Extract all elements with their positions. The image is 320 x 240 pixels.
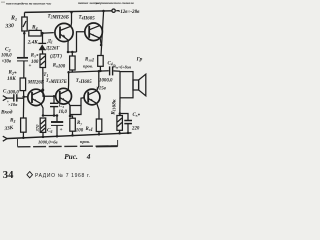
input terminal bottom: [3, 136, 7, 141]
top faint cropped text row: [1, 1, 134, 6]
capacitor C6 electrolytic: [56, 116, 58, 122]
resistor R4: [29, 30, 41, 36]
junction dots: [22, 10, 129, 139]
speaker bottom wire: [119, 98, 121, 116]
right bus from rail: [101, 11, 104, 56]
diode D1: [38, 42, 46, 44]
transistor T2: [55, 23, 73, 41]
svg-text:Гр: Гр: [136, 57, 143, 63]
transistor T1: [28, 89, 44, 105]
svg-text:(Д7Г): (Д7Г): [50, 55, 62, 60]
svg-text:Вход: Вход: [0, 109, 13, 116]
resistor (T1 emitter, 370): [40, 118, 46, 132]
wire node to diode: [42, 33, 44, 43]
resistor R1: [22, 17, 27, 31]
transistor T4: [85, 23, 103, 41]
supply terminal: [112, 9, 115, 12]
resistor R3: [21, 118, 27, 132]
T3 emitter down: [68, 103, 70, 116]
C5 branch wire: [120, 114, 128, 121]
svg-text:-12в÷-28в: -12в÷-28в: [119, 9, 141, 15]
wire R2 to input node: [23, 91, 25, 99]
capacitor C1: [13, 94, 15, 101]
resistor R5: [40, 54, 46, 68]
T2 emitter wire down: [67, 40, 69, 52]
resistor R9: [96, 119, 102, 132]
input terminal top: [3, 96, 7, 101]
resistor R2: [20, 78, 26, 91]
T3 collector to output bus: [67, 72, 69, 90]
capacitor C5: [124, 120, 132, 122]
top supply rail: [25, 11, 113, 13]
svg-text:R1: R1: [10, 16, 17, 22]
resistor R7: [70, 118, 76, 131]
svg-text:2,4К: 2,4К: [27, 40, 38, 46]
resistor R6 (100): [70, 56, 76, 70]
svg-text:Д226Г: Д226Г: [45, 47, 60, 52]
svg-text:пров.: пров.: [80, 139, 90, 144]
svg-text:18К: 18К: [7, 76, 16, 82]
T1 collector wire: [41, 89, 43, 91]
dashed crop line: [18, 145, 119, 148]
transistor T3: [56, 88, 72, 104]
R6 bottom to output bus: [71, 70, 73, 72]
T1 emitter wire down: [41, 104, 43, 116]
wire R5 to T1 collector node: [42, 68, 44, 89]
svg-text:Т1: Т1: [43, 73, 48, 78]
left bus wire: [24, 12, 26, 17]
svg-text:R7: R7: [77, 121, 82, 126]
transistor T5: [84, 89, 100, 105]
svg-text:пров.: пров.: [83, 64, 93, 69]
wire T1 node to T3 base: [43, 89, 56, 97]
svg-text:1000,0×6в: 1000,0×6в: [38, 139, 58, 144]
resistor R8 box between T3 emitter and T5 base: [70, 106, 81, 115]
svg-text:Д1: Д1: [47, 40, 53, 45]
resistor R11: [117, 116, 123, 131]
wire R4 to T2 base: [41, 32, 54, 35]
T2 collector to rail: [70, 12, 73, 27]
svg-text:РАДИО № 7 1968 г.: РАДИО № 7 1968 г.: [35, 173, 91, 179]
svg-text:Рис.: Рис.: [64, 152, 78, 161]
svg-text:34: 34: [3, 170, 14, 181]
T1 base wire: [24, 96, 28, 98]
resistor R10: [98, 56, 104, 67]
T5 emitter to R9: [97, 103, 99, 119]
svg-text:×30в: ×30в: [2, 60, 12, 65]
svg-text:4: 4: [86, 152, 91, 161]
svg-text:10,0: 10,0: [59, 110, 68, 115]
svg-text:100: 100: [31, 60, 39, 65]
svg-text:МП26Б: МП26Б: [27, 81, 44, 86]
svg-text:+: +: [29, 64, 32, 69]
wire R1 to R4 node: [23, 31, 25, 58]
svg-text:×10в: ×10в: [8, 102, 17, 107]
svg-text:нием передачи на высоких час: нием передачи на высоких час: [6, 2, 52, 6]
wire T2 emitter to T4 base corner: [68, 51, 77, 53]
svg-text:1000,0: 1000,0: [99, 79, 113, 84]
svg-text:100: 100: [76, 128, 84, 133]
capacitor C4: [109, 66, 111, 75]
svg-text:+: +: [60, 127, 63, 133]
svg-text:370: 370: [35, 124, 40, 133]
svg-text:у принимаемого сигнала: у принимаемого сигнала: [95, 1, 134, 5]
svg-text:220: 220: [131, 127, 140, 132]
svg-text:С3: С3: [59, 104, 64, 109]
capacitor C2: [17, 57, 28, 59]
bottom rail: [6, 133, 132, 139]
svg-text:100,0: 100,0: [1, 54, 12, 59]
footer diamond: [27, 172, 33, 178]
output bus: [69, 71, 109, 73]
T4 base wire: [77, 32, 85, 52]
capacitor C3: [53, 96, 55, 103]
T4 emitter to right bus: [99, 38, 102, 45]
figure crop mark left bracket: [17, 139, 19, 147]
figure crop mark right bracket: [117, 140, 119, 146]
wire C2 to R2: [23, 61, 25, 78]
svg-text:330: 330: [4, 23, 14, 30]
T5 collector to output bus: [97, 71, 99, 91]
wire input node to R3: [22, 99, 24, 118]
emitter link wire: [43, 115, 58, 117]
